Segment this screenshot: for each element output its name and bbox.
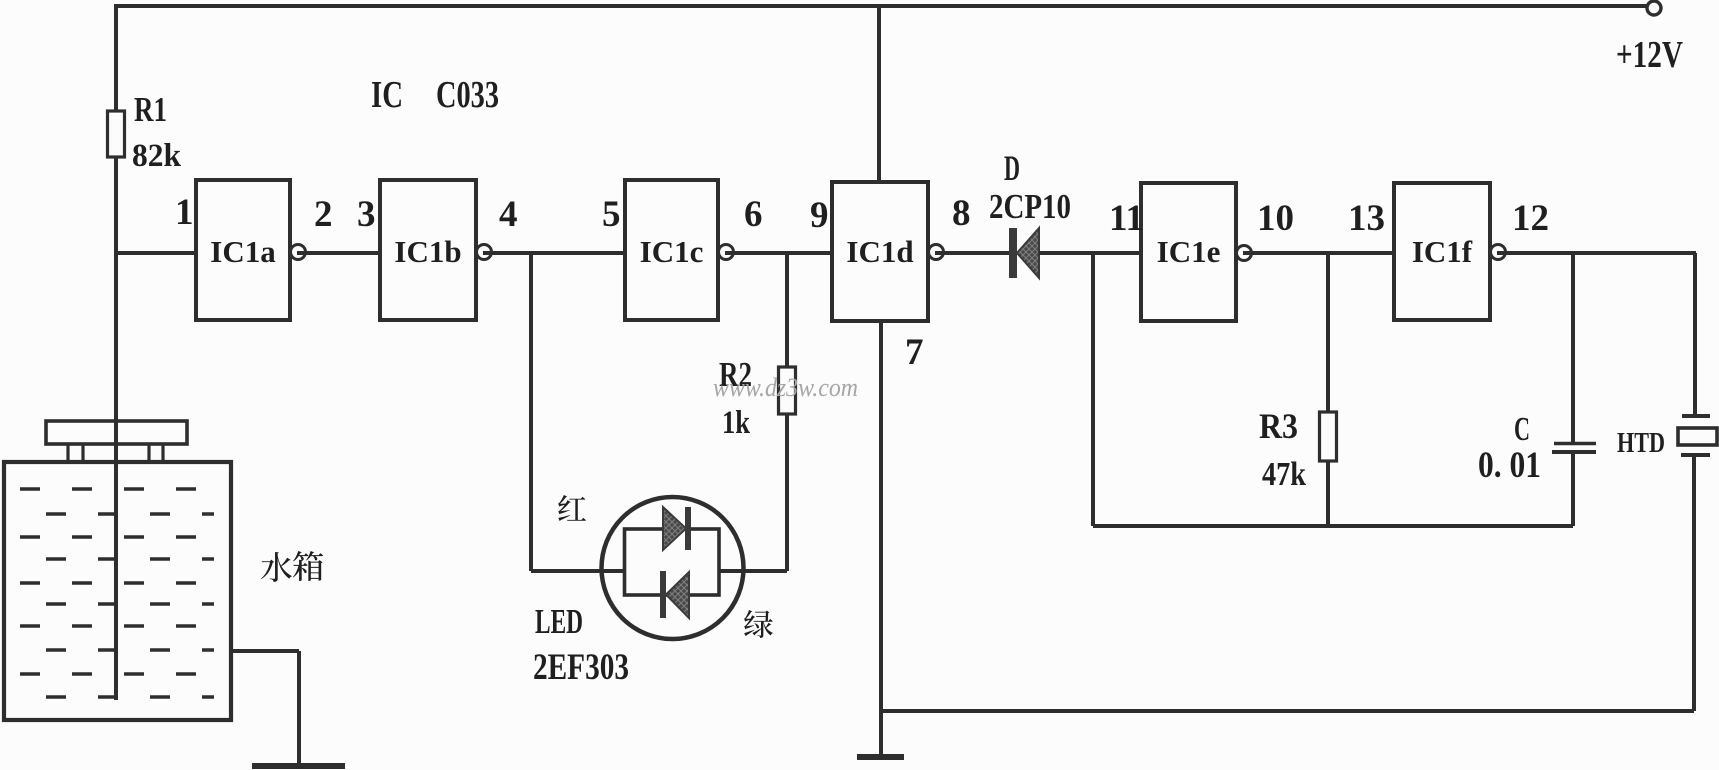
svg-text:IC1d: IC1d (846, 234, 913, 269)
label green 绿 (744, 610, 773, 638)
label red 红 (558, 495, 586, 521)
resistor R3 (1320, 412, 1337, 461)
svg-text:4: 4 (499, 194, 518, 235)
wire C bottom (1571, 452, 1575, 526)
resistor R1 (108, 111, 125, 157)
svg-text:2CP10: 2CP10 (989, 187, 1071, 226)
capacitor C 0.01 (1552, 444, 1596, 453)
water level dashes (20, 489, 214, 697)
LED 2EF303 bicolor (602, 497, 744, 639)
svg-text:+12V: +12V (1616, 34, 1683, 76)
wire IC1a out to IC1b (297, 251, 380, 255)
svg-text:0. 01: 0. 01 (1478, 445, 1541, 486)
svg-text:11: 11 (1109, 198, 1144, 239)
svg-text:C033: C033 (436, 74, 499, 116)
svg-text:10: 10 (1257, 198, 1294, 239)
svg-text:3: 3 (357, 194, 376, 235)
wire tank outlet (229, 649, 299, 653)
wire IC1b out to IC1c (483, 251, 625, 255)
wire diode to IC1e (1039, 251, 1141, 255)
svg-text:1: 1 (175, 192, 194, 233)
svg-text:47k: 47k (1262, 456, 1306, 493)
wire node to IC1a pin1 (114, 251, 196, 255)
svg-text:R3: R3 (1259, 406, 1298, 446)
water tank 水箱 (4, 421, 231, 720)
wire IC1d pin7 down (879, 321, 883, 757)
label 水箱 (261, 551, 323, 582)
svg-text:C: C (1514, 411, 1530, 448)
wire +12V top rail (114, 4, 1647, 8)
svg-text:1k: 1k (722, 405, 751, 441)
wire R2 down to LED right (785, 414, 789, 571)
wire node4 branch down to LED (529, 253, 533, 571)
wire bottom rail (881, 709, 1694, 713)
inverter IC1d (832, 182, 944, 321)
wire IC1c out to IC1d (725, 251, 832, 255)
svg-text:13: 13 (1348, 198, 1385, 239)
inverter IC1e (1141, 183, 1252, 321)
wire node6 branch down to R2 (785, 253, 789, 369)
svg-text:8: 8 (952, 193, 971, 234)
svg-text:2: 2 (314, 194, 333, 235)
wire feedback bottom (1093, 524, 1573, 528)
buzzer HTD (1678, 416, 1717, 455)
inverter IC1a (196, 180, 306, 320)
wire into LED left (531, 569, 625, 573)
svg-text:IC1e: IC1e (1157, 234, 1221, 269)
wire tank to ground (297, 651, 301, 766)
svg-text:IC1f: IC1f (1412, 234, 1473, 269)
wire pin12 to HTD (1693, 253, 1697, 416)
ground under tank (252, 763, 345, 769)
svg-text:9: 9 (810, 195, 829, 236)
svg-text:D: D (1004, 148, 1020, 188)
svg-text:www.dz3w.com: www.dz3w.com (713, 373, 858, 402)
wire IC1d out to diode D (935, 251, 1010, 255)
svg-text:6: 6 (744, 194, 763, 235)
svg-text:5: 5 (602, 194, 621, 235)
svg-text:IC1b: IC1b (394, 234, 461, 269)
ground under IC1d (857, 754, 904, 760)
wire LED right to R2 (718, 569, 787, 573)
wire left rail upper (114, 6, 118, 111)
inverter IC1b (380, 180, 492, 320)
svg-text:82k: 82k (132, 138, 182, 174)
wire pin12 node down to C (1571, 253, 1575, 443)
svg-text:HTD: HTD (1617, 427, 1665, 459)
svg-text:2EF303: 2EF303 (533, 647, 629, 688)
resistor R2 (779, 367, 796, 414)
svg-text:LED: LED (535, 602, 583, 641)
wire R3 down (1326, 461, 1330, 526)
svg-text:7: 7 (905, 332, 924, 373)
diode D 2CP10 (1009, 228, 1039, 278)
inverter IC1c (625, 180, 734, 320)
wire left rail / tank electrode (114, 157, 118, 700)
svg-text:R1: R1 (134, 90, 167, 129)
wire node8 branch down (1091, 253, 1095, 526)
svg-text:IC1c: IC1c (640, 234, 704, 269)
wire IC1f out / pin12 (1497, 251, 1696, 255)
wire HTD down (1692, 455, 1696, 711)
wire IC1e out to IC1f (1243, 251, 1394, 255)
svg-text:12: 12 (1512, 198, 1549, 239)
wire node10 branch to R3 (1326, 253, 1330, 412)
svg-text:IC: IC (371, 74, 403, 116)
terminal +12V (1647, 1, 1661, 15)
svg-text:IC1a: IC1a (210, 234, 276, 269)
inverter IC1f (1394, 183, 1506, 320)
wire top rail to IC1d pin (877, 6, 881, 182)
